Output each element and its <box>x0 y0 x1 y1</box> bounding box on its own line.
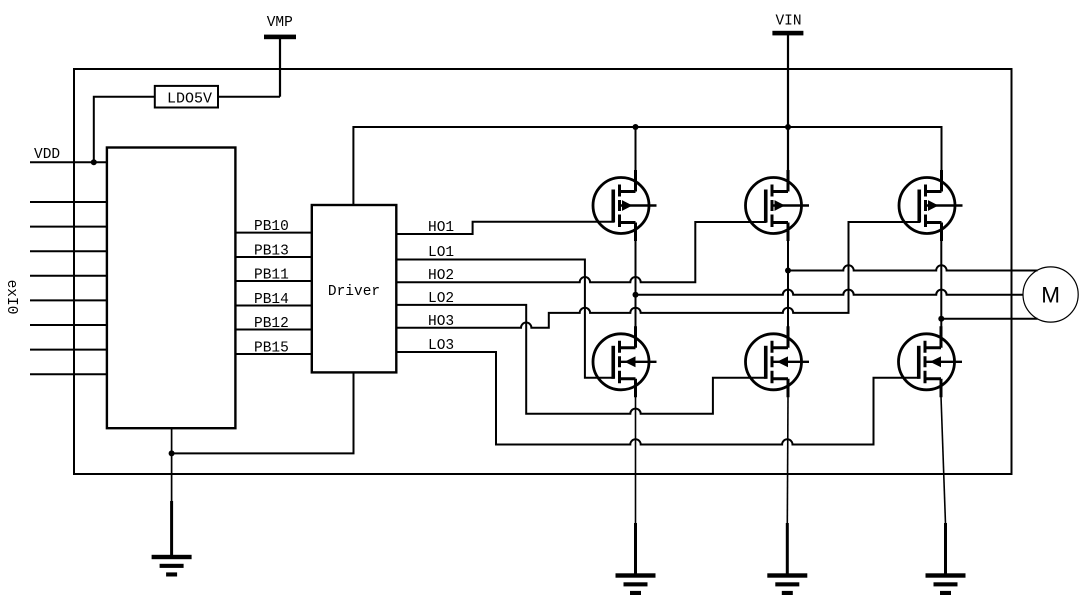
ground G3 <box>767 573 807 595</box>
wire PB10 <box>235 232 311 234</box>
ground G1 <box>152 555 192 577</box>
wire exIO stub 2 <box>30 226 107 228</box>
transistor Q1 <box>593 170 657 241</box>
wire PB13 <box>235 256 311 258</box>
wire LDO5V input to VDD net <box>94 97 155 163</box>
node phase A <box>633 292 639 298</box>
wire HO3 <box>396 222 920 328</box>
wire LO3 <box>396 352 919 445</box>
svg-text:LO1: LO1 <box>428 245 454 261</box>
transistor Q6 <box>899 326 963 397</box>
wire exIO stub 4 <box>30 275 107 277</box>
wire exIO stub 3 <box>30 250 107 252</box>
wire VIN bus to driver and high-side drains <box>353 127 941 205</box>
svg-text:PB10: PB10 <box>254 219 289 235</box>
svg-text:HO1: HO1 <box>428 220 454 236</box>
svg-text:LDO5V: LDO5V <box>167 91 212 108</box>
svg-text:PB12: PB12 <box>254 316 289 332</box>
wire MCU ground lead <box>171 428 173 502</box>
svg-text:PB14: PB14 <box>254 292 289 308</box>
regulator U2 LDO5V <box>155 86 218 108</box>
svg-text:VMP: VMP <box>267 15 293 31</box>
wire exIO stub 1 <box>30 201 107 203</box>
node ground return junction <box>169 450 175 456</box>
node phase B <box>785 268 791 274</box>
wire phase B low-side source to ground <box>786 397 789 525</box>
wire PB14 <box>235 305 311 307</box>
svg-text:exI0: exI0 <box>3 280 19 315</box>
svg-text:M: M <box>1041 283 1060 308</box>
svg-text:PB15: PB15 <box>254 340 289 356</box>
svg-text:HO3: HO3 <box>428 314 454 330</box>
wire VDD input <box>30 161 107 163</box>
wire phase A link <box>635 241 637 327</box>
svg-text:PB11: PB11 <box>254 267 289 283</box>
wire exIO stub 8 <box>30 373 107 375</box>
svg-text:LO2: LO2 <box>428 291 454 307</box>
wire LO2 <box>396 305 766 414</box>
ground G4 <box>926 573 966 595</box>
svg-text:HO2: HO2 <box>428 268 454 284</box>
wire exIO stub 7 <box>30 349 107 351</box>
wire phase B to motor <box>788 265 1038 270</box>
node phase C <box>938 316 944 322</box>
MCU U1 box <box>107 148 236 429</box>
wire PB15 <box>235 353 311 355</box>
power symbol VIN <box>772 14 803 36</box>
motor M1 <box>1023 267 1078 322</box>
transistor Q4 <box>593 326 657 397</box>
wire PB12 <box>235 329 311 331</box>
wire phase B link <box>787 241 789 327</box>
svg-text:Driver: Driver <box>328 284 380 300</box>
wire exIO stub 6 <box>30 324 107 326</box>
wire exIO stub 5 <box>30 299 107 301</box>
svg-text:LO3: LO3 <box>428 338 454 354</box>
wire phase C to motor <box>941 318 1037 320</box>
wire HO1 <box>396 222 614 234</box>
wire PB11 <box>235 280 311 282</box>
outer block boundary box <box>74 69 1012 474</box>
wire HO2 <box>396 222 766 282</box>
wire phase A to motor <box>636 290 1024 295</box>
power symbol VMP <box>264 15 296 39</box>
wire phase A low-side source to ground <box>635 397 637 525</box>
wire LDO5V output to VMP line <box>218 96 280 98</box>
wire VIN bar down to Q2 drain <box>787 35 789 170</box>
gate driver U3 box <box>312 205 397 372</box>
svg-text:VIN: VIN <box>775 14 801 30</box>
wire driver ground return <box>172 372 354 453</box>
ground G2 <box>616 573 656 595</box>
wire phase C low-side source to ground <box>941 397 946 525</box>
wire VMP bar down to LDO5V output node <box>279 39 281 97</box>
node bus-Q1 junction <box>633 124 639 130</box>
transistor Q2 <box>746 170 810 241</box>
wire bus drop to Q1 drain <box>635 127 637 170</box>
svg-text:VDD: VDD <box>34 147 60 163</box>
wire phase C link <box>940 241 942 327</box>
node VDD junction <box>91 159 97 165</box>
transistor Q3 <box>899 170 963 241</box>
wire LO1 <box>396 260 614 378</box>
node bus-VIN junction <box>785 124 791 130</box>
svg-text:PB13: PB13 <box>254 243 289 259</box>
transistor Q5 <box>746 326 810 397</box>
